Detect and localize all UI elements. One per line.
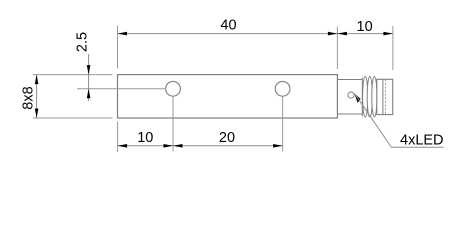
svg-text:20: 20 (219, 130, 235, 146)
arrow 2.5 up (tip at hole centerline) (87, 89, 91, 99)
mounting hole H1 (166, 81, 181, 96)
mounting hole H2 (275, 81, 290, 96)
connector neck section (338, 80, 363, 115)
extension line body right (for 40/10 dims) (336, 27, 338, 70)
extension line left of body top (for 40 dim) (117, 26, 119, 69)
extension line body bottom left (8x8 reference) (33, 117, 113, 119)
arrow bottom 10 left (118, 144, 128, 148)
svg-text:40: 40 (220, 18, 236, 34)
leader arrowhead to LED (354, 94, 360, 103)
extension line below hole H2 (282, 96, 284, 151)
knurl ring 3 (372, 77, 377, 118)
LED window circle (348, 92, 354, 98)
extension line connector end (for 10 dim) (392, 26, 394, 70)
dimension line 8x8 (36, 75, 38, 118)
arrow 10 right (383, 32, 393, 36)
knurl ring 1 (363, 77, 368, 118)
leader line to 4xLED (355, 94, 444, 148)
arrow 8x8 down (35, 109, 39, 119)
extension line below hole H1 (172, 96, 174, 151)
dimension line 2.5 (88, 54, 90, 101)
svg-text:10: 10 (357, 19, 373, 35)
dimension line 10 (top right) (337, 33, 393, 35)
svg-text:2.5: 2.5 (75, 32, 91, 52)
arrow 10 left (337, 32, 347, 36)
svg-text:4xLED: 4xLED (400, 133, 444, 149)
barrel groove line (382, 79, 384, 114)
svg-text:10: 10 (137, 130, 153, 146)
connector end barrel (377, 79, 393, 114)
dimension line 40 (118, 33, 338, 35)
svg-text:8x8: 8x8 (21, 86, 37, 109)
extension line below body left edge (bottom 10 dim) (117, 122, 119, 153)
arrow bottom 20 right (273, 144, 283, 148)
dimension line bottom (10 and 20) (118, 145, 283, 147)
extension line body top left (8x8 and 2.5 reference) (33, 74, 113, 76)
knurl ring 2 (367, 77, 372, 118)
barrel dashed thread line (384, 79, 386, 114)
hole centerline extension (2.5 reference) (77, 88, 166, 90)
knurled coupling ring left edge (361, 78, 363, 117)
arrow 8x8 up (35, 75, 39, 85)
arrow 40 left (118, 32, 128, 36)
arrow bottom 20 left (173, 144, 183, 148)
sensor body outline (118, 75, 338, 118)
arrow 40 right (328, 32, 338, 36)
arrow bottom 10 right (164, 144, 174, 148)
arrow 2.5 down (tip at body top) (87, 65, 91, 75)
